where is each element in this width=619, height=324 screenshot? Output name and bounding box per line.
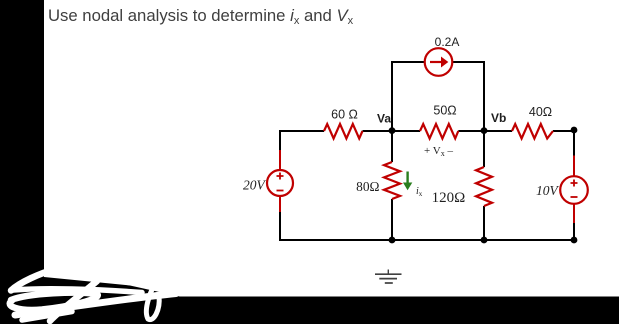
node Vb junction dot <box>481 127 488 134</box>
wire: red upper lead of 10V source <box>573 156 575 177</box>
wire: left branch below 20V source to bottom rail <box>279 212 393 241</box>
wire: 40-ohm resistor to top-right node <box>553 130 574 132</box>
current arrow ix (green) <box>403 172 412 191</box>
wire: node Vb down to 120-ohm resistor <box>483 131 485 167</box>
svg-text:Va: Va <box>377 112 391 126</box>
resistor 60 ohm <box>324 124 363 139</box>
svg-text:ix: ix <box>416 186 423 198</box>
resistor 40 ohm <box>512 124 553 139</box>
svg-text:0.2A: 0.2A <box>435 35 460 49</box>
svg-text:50Ω: 50Ω <box>433 104 456 118</box>
current source I1 0.2A <box>425 48 453 76</box>
wire: 10V source bottom lead to bottom-right node <box>573 223 575 240</box>
wire: node Va to 50-ohm resistor <box>392 130 420 132</box>
wire: red upper lead of 20V source <box>279 150 281 171</box>
wire: red lower lead of 10V source <box>573 204 575 224</box>
svg-text:10V: 10V <box>536 183 560 198</box>
svg-text:120Ω: 120Ω <box>432 190 466 206</box>
svg-text:20V: 20V <box>243 178 267 193</box>
ground <box>375 270 402 284</box>
resistor 120 ohm <box>476 167 492 206</box>
title text <box>48 6 353 26</box>
wire: top rail left of current source <box>391 61 425 63</box>
node bottom-right junction dot <box>571 237 578 244</box>
wire: node Vb to 40-ohm resistor <box>484 130 512 132</box>
wire: mid rail top-left corner to 60-ohm resistor <box>279 130 324 150</box>
node Va junction dot <box>389 127 396 134</box>
wire: top-right node down toward 10V source <box>573 130 575 156</box>
wire: node Va up to top rail <box>391 62 393 131</box>
node below 120-ohm junction dot <box>481 237 488 244</box>
wire: bottom rail <box>392 239 575 241</box>
node top-right junction dot <box>571 127 578 134</box>
svg-text:Vb: Vb <box>491 111 506 125</box>
resistor 50 ohm <box>420 124 458 139</box>
voltage source V2 10V <box>560 176 588 204</box>
wire: 50-ohm resistor to node Vb <box>458 130 484 132</box>
node below 80-ohm junction dot <box>389 237 396 244</box>
svg-text:60 Ω: 60 Ω <box>331 108 358 122</box>
voltage source V1 20V <box>267 170 293 196</box>
resistor 80 ohm <box>384 162 400 199</box>
svg-text:80Ω: 80Ω <box>356 179 379 194</box>
wire: red lower lead of 20V source <box>279 196 281 213</box>
wire: 80-ohm resistor down to bottom rail <box>391 199 393 240</box>
svg-text:40Ω: 40Ω <box>529 105 552 119</box>
wire: node Va down to 80-ohm resistor <box>391 131 393 162</box>
wire: 60-ohm resistor to node Va <box>363 130 393 132</box>
wire: top rail down to node Vb <box>483 62 485 131</box>
wire: top rail right of current source <box>453 61 486 63</box>
wire: 120-ohm resistor down to bottom rail <box>483 206 485 240</box>
svg-text:+ Vx –: + Vx – <box>424 145 453 158</box>
